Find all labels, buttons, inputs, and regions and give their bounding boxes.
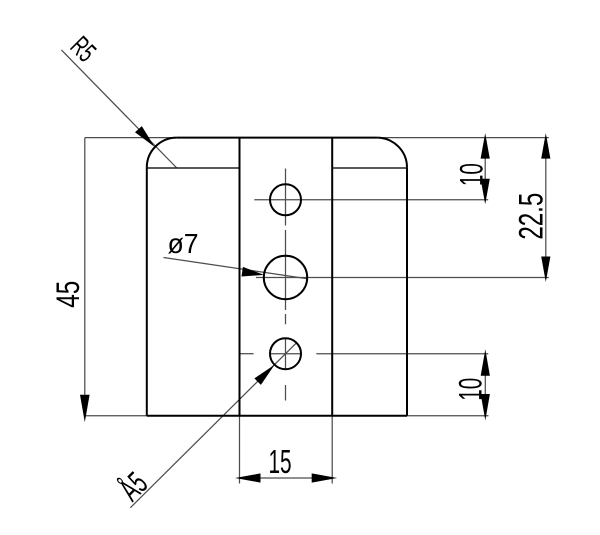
svg-text:15: 15	[268, 443, 291, 480]
svg-text:10: 10	[453, 378, 489, 401]
svg-text:45: 45	[51, 281, 87, 308]
svg-text:10: 10	[454, 163, 490, 186]
svg-text:ø7: ø7	[168, 228, 199, 259]
svg-text:22.5: 22.5	[512, 193, 550, 240]
